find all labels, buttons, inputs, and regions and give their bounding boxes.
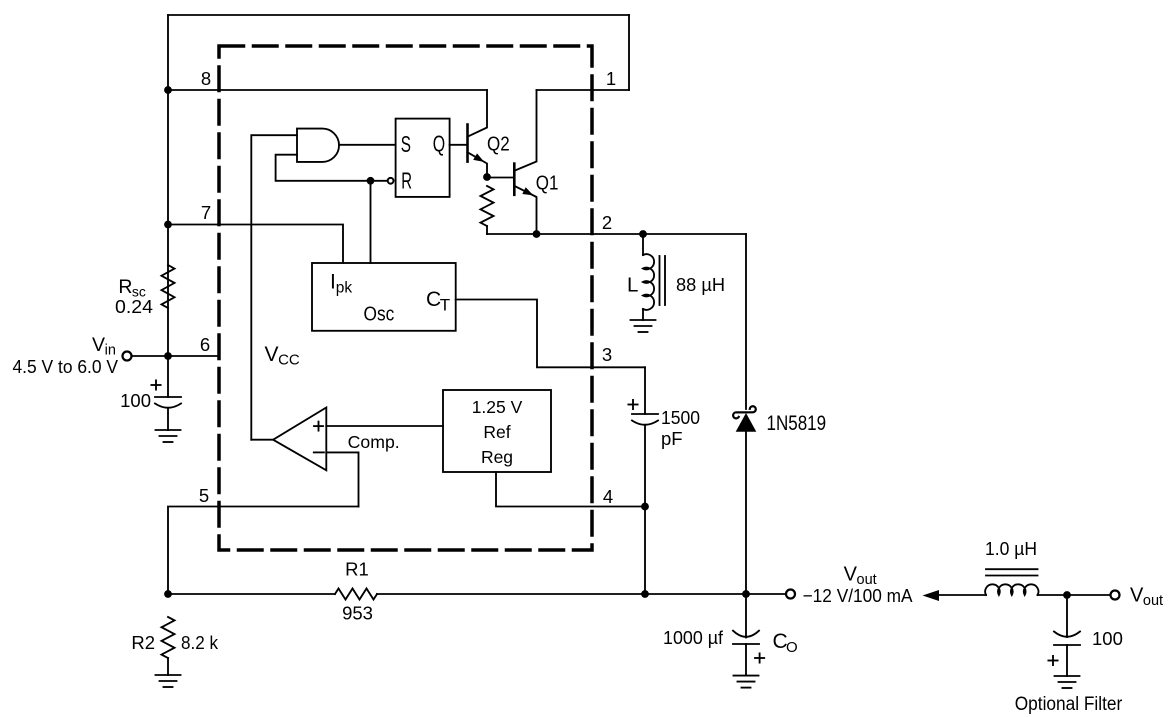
wire AND lower input from R net xyxy=(276,155,387,181)
label Q2 xyxy=(487,134,510,156)
wire CT to pin 3 xyxy=(456,300,645,368)
value 88 uH xyxy=(676,274,725,295)
svg-text:8: 8 xyxy=(201,68,211,89)
wire bottom rail left xyxy=(168,593,335,595)
wire cap top xyxy=(167,356,169,397)
wire Ref to pin 4 xyxy=(496,472,645,507)
pin label 6 xyxy=(200,334,210,355)
svg-text:4: 4 xyxy=(603,486,613,507)
inductor L 88uH xyxy=(643,234,665,320)
ground filter cap xyxy=(1055,676,1080,688)
svg-text:Reg: Reg xyxy=(481,447,513,467)
terminal Vin open circle xyxy=(123,352,132,361)
comparator plus sign xyxy=(314,422,323,431)
node bottom left junction xyxy=(164,590,172,598)
label R2 xyxy=(131,632,155,653)
capacitor Co 1000uF xyxy=(733,594,759,676)
svg-text:T: T xyxy=(440,296,450,315)
label Vout main xyxy=(844,564,877,589)
ground L xyxy=(631,320,656,332)
label R1 xyxy=(345,559,369,580)
svg-text:953: 953 xyxy=(342,603,373,624)
svg-text:Q: Q xyxy=(433,131,445,157)
label Co xyxy=(773,630,798,656)
ground Co xyxy=(734,676,759,688)
IC boundary dashed box (MC34063) xyxy=(219,46,592,550)
svg-text:−12 V/100 mA: −12 V/100 mA xyxy=(803,585,914,606)
wire left rail Vin (x=168) xyxy=(167,15,169,356)
wire outer right drop to pin 1 xyxy=(628,15,630,90)
wire pin 5 xyxy=(168,507,359,595)
node R net junction xyxy=(367,177,375,185)
svg-text:4.5 V to 6.0 V: 4.5 V to 6.0 V xyxy=(13,357,119,377)
svg-text:3: 3 xyxy=(602,344,612,365)
svg-text:1000 µf: 1000 µf xyxy=(663,627,724,648)
label Optional Filter xyxy=(1015,694,1123,715)
terminal Vout open circle xyxy=(786,590,795,599)
svg-text:R2: R2 xyxy=(131,632,155,653)
svg-text:6: 6 xyxy=(200,334,210,355)
wire comp plus input to Ref xyxy=(326,425,443,427)
node bottom Co junction xyxy=(742,590,750,598)
wire pin 7 to Ipk sense xyxy=(168,225,343,264)
label S xyxy=(401,131,411,157)
wire top loop (pin 8/1 supply loop) xyxy=(168,14,629,16)
svg-text:7: 7 xyxy=(201,202,211,223)
node bottom mid junction xyxy=(641,590,649,598)
wire pin 2 rail xyxy=(487,233,746,235)
svg-text:1: 1 xyxy=(606,68,616,89)
label Ref xyxy=(483,422,510,442)
label Ipk xyxy=(330,271,352,297)
svg-text:L: L xyxy=(627,274,638,297)
comparator xyxy=(273,408,326,471)
node pin8 junction xyxy=(164,86,172,94)
label VCC xyxy=(265,343,300,369)
transistor Q2 xyxy=(468,90,488,177)
resistor R1 xyxy=(335,589,377,600)
svg-text:1N5819: 1N5819 xyxy=(767,412,827,435)
capacitor filter plus xyxy=(1048,656,1057,665)
wire pin 8 to Q2 collector xyxy=(168,89,487,91)
inductor 1.0 uH filter xyxy=(985,569,1038,595)
value 1500 xyxy=(661,407,700,428)
label Q1 xyxy=(536,173,559,195)
label L xyxy=(627,274,638,297)
node L junction xyxy=(639,230,647,238)
svg-text:R: R xyxy=(118,276,132,298)
ground R2 xyxy=(156,675,181,687)
terminal Vout right circle xyxy=(1111,591,1120,600)
label 1.25 V xyxy=(472,397,523,417)
node pin6 junction xyxy=(164,352,172,360)
pin label 3 xyxy=(602,344,612,365)
value 100 input cap xyxy=(120,390,151,411)
wire comp minus input to pin 5 xyxy=(326,452,358,506)
svg-text:Optional Filter: Optional Filter xyxy=(1015,694,1123,715)
svg-text:2: 2 xyxy=(602,212,612,233)
svg-text:1500: 1500 xyxy=(661,407,700,428)
svg-text:V: V xyxy=(265,343,279,366)
svg-text:100: 100 xyxy=(1092,628,1123,649)
capacitor 100uF input plus xyxy=(151,380,160,389)
wire comparator to AND top input xyxy=(251,135,297,440)
capacitor 1500pF plus xyxy=(628,400,637,409)
wire pin2 to diode xyxy=(745,234,747,409)
svg-text:R: R xyxy=(401,167,412,193)
capacitor 100uF input xyxy=(155,397,181,430)
svg-text:8.2 k: 8.2 k xyxy=(181,632,219,653)
node Q2 emitter junction xyxy=(483,173,491,181)
label Rsc xyxy=(118,276,145,300)
svg-text:1.0 µH: 1.0 µH xyxy=(985,538,1037,559)
pin label 5 xyxy=(199,485,209,506)
value pF xyxy=(661,428,683,449)
pin label 4 xyxy=(603,486,613,507)
svg-text:Ref: Ref xyxy=(483,422,510,442)
node pin4 junction xyxy=(641,503,649,511)
label Vin xyxy=(92,334,116,359)
wire R net to Osc xyxy=(370,181,372,263)
label Comp. xyxy=(348,432,400,452)
svg-text:Comp.: Comp. xyxy=(348,432,400,452)
svg-text:O: O xyxy=(786,639,798,656)
label CT xyxy=(426,288,450,315)
value 953 xyxy=(342,603,373,624)
svg-text:Q2: Q2 xyxy=(487,134,510,156)
value 1.0 uH xyxy=(985,538,1037,559)
capacitor filter 100uF xyxy=(1054,595,1080,676)
svg-text:5: 5 xyxy=(199,485,209,506)
label Vout right xyxy=(1130,585,1163,610)
pin label 7 xyxy=(201,202,211,223)
svg-text:V: V xyxy=(844,564,858,586)
ground input cap xyxy=(156,430,181,442)
value 8.2 k xyxy=(181,632,219,653)
value 100 filter xyxy=(1092,628,1123,649)
svg-text:pF: pF xyxy=(661,428,683,449)
label Osc xyxy=(364,303,395,326)
svg-text:0.24: 0.24 xyxy=(115,296,153,317)
label -12 V/100 mA xyxy=(803,585,914,606)
svg-text:R1: R1 xyxy=(345,559,369,580)
pin label 2 xyxy=(602,212,612,233)
comparator minus sign xyxy=(314,451,324,453)
wire Q2 emitter to Q1 base xyxy=(487,177,514,179)
R input bubble xyxy=(388,178,394,184)
svg-text:pk: pk xyxy=(336,280,353,297)
svg-text:100: 100 xyxy=(120,390,151,411)
svg-text:Osc: Osc xyxy=(364,303,395,326)
wire AND output to S xyxy=(339,144,396,146)
svg-text:S: S xyxy=(401,131,411,157)
pin label 8 xyxy=(201,68,211,89)
wire coil to Vout terminal xyxy=(1038,594,1111,596)
oscillator box xyxy=(312,263,456,331)
capacitor Co plus xyxy=(755,653,764,662)
AND gate xyxy=(297,129,339,162)
svg-text:Q1: Q1 xyxy=(536,173,559,195)
svg-text:V: V xyxy=(1130,585,1144,607)
node filter junction xyxy=(1063,591,1071,599)
label Reg xyxy=(481,447,513,467)
label R xyxy=(401,167,412,193)
wire pin 1 segment xyxy=(537,89,630,91)
svg-text:88 µH: 88 µH xyxy=(676,274,725,295)
resistor Rsc xyxy=(162,265,175,308)
label Q xyxy=(433,131,445,157)
transistor Q1 xyxy=(514,90,536,234)
node pin7 junction xyxy=(164,221,172,229)
wire Q output to Q2 base xyxy=(450,144,468,146)
reference regulator box xyxy=(443,390,551,472)
pin label 1 xyxy=(606,68,616,89)
arrow to output xyxy=(923,590,987,601)
wire comparator output xyxy=(251,439,273,441)
wire bottom rail right xyxy=(377,593,786,595)
value 1000 uf xyxy=(663,627,724,648)
node Q1 emitter junction xyxy=(533,230,541,238)
resistor Q1 base-emitter xyxy=(481,186,494,234)
wire pin 6 input xyxy=(133,355,220,357)
svg-text:out: out xyxy=(1143,593,1163,609)
resistor R2 xyxy=(162,617,175,675)
svg-text:V: V xyxy=(92,334,105,356)
label 1N5819 xyxy=(767,412,827,435)
label 4.5 V to 6.0 V xyxy=(13,357,119,377)
SR latch box xyxy=(396,119,450,197)
value 0.24 xyxy=(115,296,153,317)
svg-text:CC: CC xyxy=(278,352,300,369)
capacitor CT 1500pF xyxy=(632,367,658,594)
svg-text:1.25 V: 1.25 V xyxy=(472,397,523,417)
diode 1N5819 schottky xyxy=(733,406,756,594)
